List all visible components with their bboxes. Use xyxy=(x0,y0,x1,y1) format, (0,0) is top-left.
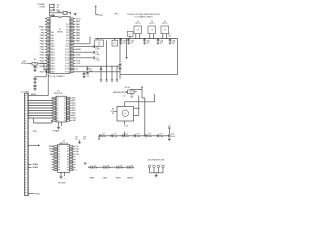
capacitor CA5 xyxy=(145,134,147,137)
U1 pin 38 (right) xyxy=(70,23,73,25)
svg-text:PC17: PC17 xyxy=(65,66,69,68)
svg-text:+12: +12 xyxy=(56,7,59,9)
U2 pin 14 (right) xyxy=(67,112,70,114)
svg-text:C23: C23 xyxy=(136,134,139,136)
relay coil circle xyxy=(122,110,128,116)
J2 pin 2 wire xyxy=(50,6,54,8)
svg-text:PC13: PC13 xyxy=(65,55,69,57)
svg-text:P1: P1 xyxy=(58,149,60,151)
svg-text:XTAL2: XTAL2 xyxy=(39,26,44,29)
capacitor CB11 xyxy=(103,166,105,169)
svg-text:10u: 10u xyxy=(146,43,149,45)
mounting holes ground xyxy=(155,173,157,175)
capacitor CA2 xyxy=(110,134,112,137)
mounting hole MH3 xyxy=(157,165,160,168)
U3 pin 7 (left) xyxy=(54,161,57,163)
U3 bottom stubs xyxy=(60,172,62,176)
U1 pin 25 (right) xyxy=(70,60,73,62)
U1 pin 19 (left) xyxy=(47,68,50,70)
capacitor CA7 xyxy=(168,134,170,137)
svg-text:FL: FL xyxy=(129,34,131,36)
svg-text:PD01: PD01 xyxy=(40,55,45,57)
U3 pin 9 (left) xyxy=(54,166,57,168)
ground for C1 xyxy=(33,69,36,71)
ground for CB5 xyxy=(169,42,171,44)
svg-text:CONN: CONN xyxy=(39,6,45,8)
ground for CB1 xyxy=(120,42,122,44)
U1 pin 26 (right) xyxy=(70,57,73,59)
svg-text:Q3: Q3 xyxy=(64,105,66,107)
svg-text:PA00: PA00 xyxy=(76,20,80,23)
U3 pin 16 (right) xyxy=(70,156,73,158)
capacitor C3 to ground xyxy=(34,84,36,85)
U2 pin 10 (left) xyxy=(53,120,56,122)
ground for C2 xyxy=(33,81,36,83)
svg-text:D4: D4 xyxy=(57,108,59,110)
svg-text:PC7: PC7 xyxy=(66,38,69,40)
svg-text:RESET: RESET xyxy=(89,177,94,179)
vertical wire from bus at x120 xyxy=(120,38,121,39)
bus capacitor CB4 xyxy=(158,38,159,39)
svg-text:P4: P4 xyxy=(58,156,60,158)
svg-text:K1: K1 xyxy=(124,113,126,115)
wire relay to row A xyxy=(124,132,126,136)
svg-text:D3: D3 xyxy=(57,105,59,107)
U1 pin 27 (right) xyxy=(70,54,73,56)
U1 pin 11 (left) xyxy=(47,46,50,48)
wire J1 to U2 pin1 xyxy=(28,95,48,97)
svg-text:X 2: X 2 xyxy=(123,95,126,97)
svg-text:0.1uF: 0.1uF xyxy=(95,60,99,62)
svg-text:OP: OP xyxy=(164,30,166,32)
bypass bus row B xyxy=(89,166,134,168)
wire J1 to U3 with arrow xyxy=(28,144,38,146)
svg-text:PC19: PC19 xyxy=(65,71,69,73)
oscillator Y1 leads xyxy=(135,34,137,39)
oscillator Y3 box xyxy=(161,26,169,34)
U2 pin 12 (right) xyxy=(67,117,70,119)
J1 inner line xyxy=(26,93,28,195)
relay K1 box xyxy=(117,106,134,121)
U3 pin 15 (right) xyxy=(70,159,73,161)
svg-text:PC2: PC2 xyxy=(66,24,69,26)
wire VR to U1 xyxy=(27,62,47,64)
svg-text:PA06: PA06 xyxy=(76,37,80,40)
bus capacitor CB1 xyxy=(120,38,121,39)
wire U1 lower row to x120 xyxy=(73,71,120,73)
svg-text:Q0: Q0 xyxy=(64,98,66,100)
U2 pin 1 (left) xyxy=(53,97,56,99)
filter box FL1 above bus xyxy=(127,32,133,37)
capacitor C13 to ground xyxy=(87,66,89,68)
U2 pin 8 (left) xyxy=(53,115,56,117)
U3 pin 5 (left) xyxy=(54,156,57,158)
J1 to U2 L wire xyxy=(33,118,35,123)
svg-text:PC16: PC16 xyxy=(65,63,69,65)
relay right pins xyxy=(134,107,139,109)
svg-text:RESET: RESET xyxy=(31,94,37,96)
svg-text:Q2: Q2 xyxy=(64,103,66,105)
svg-text:P3: P3 xyxy=(58,154,60,156)
U3 pin 2 (left) xyxy=(54,148,57,150)
svg-text:FB1: FB1 xyxy=(58,11,61,13)
U3 pin 19 (right) xyxy=(70,148,73,150)
svg-text:R12 1K: R12 1K xyxy=(125,87,130,89)
svg-text:P0: P0 xyxy=(58,146,60,148)
capacitor C16 to ground xyxy=(83,72,85,74)
U3 pin 1 (left) xyxy=(54,146,57,148)
svg-text:D0: D0 xyxy=(57,98,59,100)
svg-text:SPARE: SPARE xyxy=(33,163,39,166)
svg-text:PD00: PD00 xyxy=(40,52,45,54)
U1 pin 13 (left) xyxy=(47,51,50,53)
vertical net wire x106 xyxy=(106,41,108,67)
svg-text:OPTO: OPTO xyxy=(149,23,155,25)
wire U1 pin to C10 xyxy=(73,46,92,48)
svg-text:PC14: PC14 xyxy=(65,57,69,59)
wire loop lower long xyxy=(120,74,178,76)
svg-text:CLK0: CLK0 xyxy=(40,49,45,51)
svg-text:PC6: PC6 xyxy=(66,35,69,37)
relay top stub xyxy=(124,102,126,107)
wire U1 row to corner up xyxy=(73,43,90,45)
svg-text:Q4: Q4 xyxy=(64,108,66,110)
svg-text:MOUNTING HOLES: MOUNTING HOLES xyxy=(148,159,165,161)
capacitor C1 to ground xyxy=(34,65,36,67)
J2 pin 3 wire xyxy=(50,9,54,11)
svg-text:Q7: Q7 xyxy=(64,115,66,117)
svg-text:12: 12 xyxy=(48,49,50,51)
capacitor C11 xyxy=(92,51,94,54)
svg-text:0.1uF: 0.1uF xyxy=(171,136,175,138)
U3 pin 13 (right) xyxy=(70,164,73,166)
bus capacitor CB3 xyxy=(144,38,145,39)
U2 pin 2 (left) xyxy=(53,100,56,102)
svg-text:PB04: PB04 xyxy=(40,46,44,48)
svg-text:PC15: PC15 xyxy=(65,60,69,62)
svg-text:PA07: PA07 xyxy=(76,40,80,43)
U2 pin 5 (left) xyxy=(53,107,56,109)
svg-text:R8: R8 xyxy=(67,167,69,169)
power arrow mid right xyxy=(141,87,143,89)
svg-text:PD07: PD07 xyxy=(40,72,45,74)
svg-text:PA05: PA05 xyxy=(76,34,80,37)
svg-text:340: 340 xyxy=(98,44,101,46)
svg-text:C24: C24 xyxy=(148,134,151,136)
svg-text:PC5: PC5 xyxy=(66,32,69,34)
svg-text:+: + xyxy=(153,92,154,94)
tick right of box xyxy=(134,91,137,93)
J1 to U2 wires xyxy=(28,100,53,102)
svg-text:10u: 10u xyxy=(123,43,126,45)
svg-text:PD03: PD03 xyxy=(40,60,45,62)
svg-text:PD02: PD02 xyxy=(40,58,45,60)
vertical wire to row A xyxy=(141,89,143,98)
svg-text:PC03: PC03 xyxy=(76,63,81,65)
svg-text:AGND: AGND xyxy=(76,48,82,51)
svg-text:OPTO: OPTO xyxy=(135,23,141,25)
svg-text:Q9: Q9 xyxy=(64,120,66,122)
svg-text:PE0: PE0 xyxy=(41,32,44,34)
power symbol VCC pullup R9 xyxy=(95,6,97,8)
vertical wire U1 to U2 column xyxy=(47,56,49,96)
U2 pin 20 (right) xyxy=(67,97,70,99)
relay left pin xyxy=(115,110,117,112)
U1 pin 6 (left) xyxy=(47,32,50,34)
vertical wire right loop xyxy=(177,39,179,75)
svg-text:0.1uF: 0.1uF xyxy=(95,48,99,50)
J2 pin 5 capacitor C0 xyxy=(50,14,52,16)
svg-text:R6: R6 xyxy=(67,162,69,164)
svg-text:C16: C16 xyxy=(86,74,89,76)
ground for C13 xyxy=(86,71,89,73)
capacitor CA3 xyxy=(122,134,124,137)
svg-text:R0: R0 xyxy=(67,146,69,148)
junction 2 xyxy=(35,76,36,77)
box C34 xyxy=(127,90,134,94)
box U5 below bus xyxy=(112,40,118,46)
svg-text:OPTO: OPTO xyxy=(162,23,168,25)
oscillator Y1 box xyxy=(134,26,142,34)
svg-text:PB02: PB02 xyxy=(40,41,44,43)
U1 pin 33 (right) xyxy=(70,37,73,39)
U1 pin 20 (left) xyxy=(47,71,50,73)
svg-text:VCC0: VCC0 xyxy=(76,18,81,20)
svg-text:AT90S: AT90S xyxy=(57,30,63,33)
IC U2 body xyxy=(56,96,67,122)
U1 pin 3 (left) xyxy=(47,23,50,25)
U3 pin 18 (right) xyxy=(70,151,73,153)
svg-text:P2: P2 xyxy=(58,151,60,153)
oscillator Y2 leads xyxy=(149,34,151,39)
U1 pin 32 (right) xyxy=(70,40,73,42)
svg-text:PB03: PB03 xyxy=(40,44,44,46)
U3 pin 8 (left) xyxy=(54,164,57,166)
ground for C17 C18 xyxy=(79,140,81,142)
svg-text:BUSCTRL: BUSCTRL xyxy=(54,93,62,95)
IC U1 body xyxy=(50,17,70,74)
svg-text:P6: P6 xyxy=(58,162,60,164)
relay bottom stub xyxy=(124,121,126,125)
svg-text:XX + XX CONNECT: XX + XX CONNECT xyxy=(48,76,65,78)
svg-text:P7: P7 xyxy=(58,164,60,166)
U1 pin 1 (left) xyxy=(47,18,50,20)
connector J1 body xyxy=(25,93,29,195)
U2 pin 3 (left) xyxy=(53,102,56,104)
U2 pin 11 (right) xyxy=(67,120,70,122)
capacitor CA1 xyxy=(99,134,101,137)
svg-text:P9: P9 xyxy=(58,169,60,171)
vertical net wire x126 from bus xyxy=(125,37,128,40)
svg-text:OP: OP xyxy=(137,30,139,32)
U1 pin 37 (right) xyxy=(70,26,73,28)
ground for CB4 xyxy=(157,42,159,44)
svg-text:Q1: Q1 xyxy=(64,100,66,102)
junction at C1 xyxy=(35,63,36,64)
svg-text:0.1uF: 0.1uF xyxy=(95,54,99,56)
svg-text:ISP HDR: ISP HDR xyxy=(59,183,67,185)
svg-text:FB: FB xyxy=(114,43,116,45)
svg-text:0.1uF: 0.1uF xyxy=(102,136,106,138)
svg-text:PA03: PA03 xyxy=(76,29,80,32)
U1 pin 17 (left) xyxy=(47,63,50,65)
U1 pin 4 (left) xyxy=(47,26,50,28)
svg-text:+: + xyxy=(61,128,62,130)
J1 mid net labels xyxy=(28,164,31,166)
ground below U3 xyxy=(59,176,62,178)
U3 pin 12 (right) xyxy=(70,166,73,168)
U3 pin 17 (right) xyxy=(70,153,73,155)
svg-text:D8: D8 xyxy=(57,118,59,120)
svg-text:C21: C21 xyxy=(113,134,116,136)
U1 notch xyxy=(58,17,63,18)
U2 pin 18 (right) xyxy=(67,102,70,104)
svg-text:R3: R3 xyxy=(67,154,69,156)
svg-text:PWRGD: PWRGD xyxy=(127,177,134,179)
svg-text:C34: C34 xyxy=(129,92,132,94)
svg-text:C25: C25 xyxy=(159,134,162,136)
U2 pin 13 (right) xyxy=(67,115,70,117)
J1 pin ticks xyxy=(25,94,27,96)
svg-text:PC18: PC18 xyxy=(65,69,69,71)
svg-text:PC04: PC04 xyxy=(76,60,81,62)
U3 pin 14 (right) xyxy=(70,161,73,163)
svg-text:10u: 10u xyxy=(130,43,133,45)
wire relay top feed xyxy=(154,94,156,102)
svg-text:0.1u: 0.1u xyxy=(86,76,89,78)
capacitor CB13 xyxy=(127,166,129,169)
capacitor C10 xyxy=(92,45,94,48)
svg-text:C33: C33 xyxy=(130,166,133,168)
J1 bottom label xyxy=(28,193,34,195)
U2 pin 17 (right) xyxy=(67,105,70,107)
svg-text:0.1uF: 0.1uF xyxy=(125,136,129,138)
svg-text:R1: R1 xyxy=(34,59,36,61)
U2 pin 19 (right) xyxy=(67,100,70,102)
svg-text:0.1uF: 0.1uF xyxy=(113,136,117,138)
power arrow at row A end xyxy=(168,128,170,134)
decoupling bus row A xyxy=(99,135,170,137)
U1 pin 16 (left) xyxy=(47,60,50,62)
ground below U2 xyxy=(57,126,60,128)
svg-text:PC9: PC9 xyxy=(66,43,69,45)
U1 pin 40 (right) xyxy=(70,18,73,20)
svg-text:P8: P8 xyxy=(58,167,60,169)
U3 pin 4 (left) xyxy=(54,153,57,155)
svg-text:0.1uF: 0.1uF xyxy=(148,136,152,138)
U1 pin 7 (left) xyxy=(47,35,50,37)
ground at row A end xyxy=(168,137,170,138)
ground for C16 xyxy=(83,76,86,78)
svg-text:PA02: PA02 xyxy=(76,26,80,29)
svg-text:0.1u: 0.1u xyxy=(83,138,86,140)
U1 pin 14 (left) xyxy=(47,54,50,56)
U1 pin 21 (right) xyxy=(70,71,73,73)
U1 pin 29 (right) xyxy=(70,49,73,51)
U1 pin 23 (right) xyxy=(70,65,73,67)
ground for CB3 xyxy=(143,42,145,44)
main power bus wire xyxy=(95,38,178,40)
U3 pin 20 (right) xyxy=(70,146,73,148)
svg-text:XTPD: XTPD xyxy=(33,131,38,133)
svg-text:Q6: Q6 xyxy=(64,113,66,115)
svg-text:D7: D7 xyxy=(57,115,59,117)
svg-text:C20: C20 xyxy=(102,134,105,136)
svg-text:PB00: PB00 xyxy=(40,35,44,37)
svg-text:TO CONNECT PINS X: TO CONNECT PINS X xyxy=(134,16,153,18)
capacitor C2 to ground xyxy=(34,77,36,79)
svg-text:C13: C13 xyxy=(89,68,92,70)
svg-text:PC4: PC4 xyxy=(66,29,69,31)
svg-text:X1: X1 xyxy=(76,69,78,71)
U1 pin 2 (left) xyxy=(47,21,50,23)
U2 pin 7 (left) xyxy=(53,112,56,114)
svg-text:0.1uF: 0.1uF xyxy=(119,168,123,170)
bus capacitor CB5 xyxy=(170,38,171,39)
svg-text:D6: D6 xyxy=(57,113,59,115)
capacitor CA6 xyxy=(156,134,158,137)
svg-text:C26: C26 xyxy=(171,134,174,136)
capacitor CA4 xyxy=(133,134,135,137)
bus capacitor CB2 xyxy=(128,38,129,39)
svg-text:Q5: Q5 xyxy=(64,110,66,112)
svg-text:13: 13 xyxy=(48,52,50,54)
U2 pin 9 (left) xyxy=(53,117,56,119)
U1 pin 22 (right) xyxy=(70,68,73,70)
svg-text:Q8: Q8 xyxy=(64,118,66,120)
svg-text:PC11: PC11 xyxy=(65,49,69,51)
U1 pin 5 (left) xyxy=(47,29,50,31)
svg-text:P5: P5 xyxy=(58,159,60,161)
svg-text:C7: C7 xyxy=(168,34,170,36)
J2 pin 4 wire with ferrite bead FB1 xyxy=(50,12,63,14)
svg-text:0.1u: 0.1u xyxy=(75,138,78,140)
svg-text:C17: C17 xyxy=(75,136,78,138)
svg-text:10u: 10u xyxy=(160,43,163,45)
step wire from U1 xyxy=(43,63,45,70)
wire U1 data bus row xyxy=(73,65,120,67)
U1 pin 24 (right) xyxy=(70,63,73,65)
svg-text:10u: 10u xyxy=(172,43,175,45)
capacitor CB10 xyxy=(90,166,92,169)
svg-text:D2: D2 xyxy=(57,103,59,105)
ground for CB2 xyxy=(127,42,129,44)
svg-text:R4: R4 xyxy=(67,156,69,158)
svg-text:MEDIUM RISE: MEDIUM RISE xyxy=(113,92,125,94)
IC U3 body xyxy=(58,145,70,173)
U1 pin 12 (left) xyxy=(47,49,50,51)
U1 pin 34 (right) xyxy=(70,35,73,37)
svg-text:R5: R5 xyxy=(67,159,69,161)
svg-text:R9: R9 xyxy=(67,169,69,171)
arrow xyxy=(125,91,127,93)
svg-text:PC3: PC3 xyxy=(66,27,69,29)
U3 pin 3 (left) xyxy=(54,151,57,153)
svg-text:C31: C31 xyxy=(106,166,109,168)
oscillator Y3 leads xyxy=(162,34,164,39)
U1 pin 39 (right) xyxy=(70,21,73,23)
row A left end stub xyxy=(98,136,100,140)
connector J2 vertical bus xyxy=(49,4,51,16)
svg-text:PC12: PC12 xyxy=(65,52,69,54)
ground for C3 xyxy=(33,88,36,90)
svg-text:0.1uF: 0.1uF xyxy=(93,168,97,170)
svg-text:R2: R2 xyxy=(67,151,69,153)
svg-text:OP: OP xyxy=(151,30,153,32)
U1 pin 31 (right) xyxy=(70,43,73,45)
J2 pin 1 wire xyxy=(50,4,54,6)
svg-text:0.1uF: 0.1uF xyxy=(130,168,134,170)
